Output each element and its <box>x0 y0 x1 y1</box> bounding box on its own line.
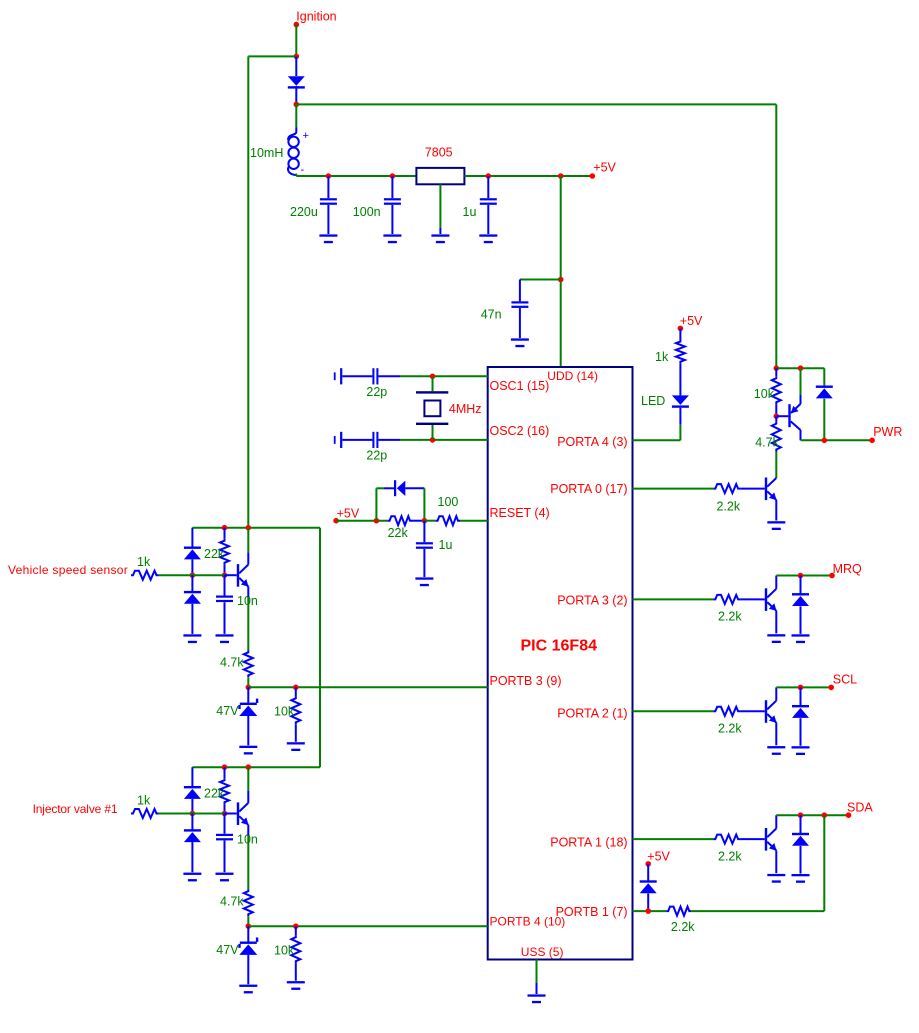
svg-text:LED: LED <box>641 394 665 408</box>
diode clamp-low (injector valve) <box>191 814 193 830</box>
wire PORTB1 pin <box>633 910 667 912</box>
resistor 10k (vehicle speed sensor) <box>295 687 297 696</box>
junction 12V/emitter <box>798 365 804 371</box>
LED D2 <box>679 364 681 396</box>
junction 1u <box>486 173 492 179</box>
svg-text:+5V: +5V <box>593 161 616 175</box>
junction rail/collector <box>246 525 252 531</box>
svg-text:10k: 10k <box>274 943 295 957</box>
diode clamp-low (vehicle speed sensor) <box>191 575 193 591</box>
resistor 2.2k (PORTA 0) <box>633 488 714 490</box>
svg-text:1k: 1k <box>655 350 669 364</box>
svg-text:Vehicle speed sensor: Vehicle speed sensor <box>8 563 128 577</box>
wire to inductor <box>295 104 297 127</box>
ground emitter (MRQ) <box>767 634 785 636</box>
node SCL terminal <box>828 685 834 691</box>
wire LED to PORTA 4 <box>679 425 681 441</box>
junction rail/22k <box>222 525 228 531</box>
junction input/base <box>222 572 228 578</box>
wire 22p to chip <box>400 375 488 377</box>
junction input/diodes <box>190 572 196 578</box>
junction diode/PORTB1 <box>645 908 651 914</box>
transistor NPN (MRQ) <box>740 598 765 600</box>
resistor 10k (PWR) <box>775 368 777 376</box>
node +5V (reset) <box>333 518 339 524</box>
svg-text:10k: 10k <box>274 705 295 719</box>
svg-text:PORTA 2 (1): PORTA 2 (1) <box>557 707 627 721</box>
transistor NPN (vehicle speed sensor) <box>225 574 237 576</box>
svg-text:PORTB 1 (7): PORTB 1 (7) <box>556 905 628 919</box>
zener 47V (vehicle speed sensor) <box>247 687 249 703</box>
svg-text:1u: 1u <box>439 538 453 552</box>
svg-text:2.2k: 2.2k <box>718 722 742 736</box>
resistor 4.7k (vehicle speed sensor) <box>244 650 253 677</box>
svg-text:220u: 220u <box>290 205 318 219</box>
svg-text:PIC 16F84: PIC 16F84 <box>521 638 598 655</box>
capacitor 10n (injector valve) <box>224 814 226 834</box>
transistor NPN (injector valve) <box>225 813 237 815</box>
junction input/diodes <box>190 811 196 817</box>
junction 220u <box>326 173 332 179</box>
capacitor C2 100n <box>391 176 393 198</box>
node SDA terminal <box>846 812 852 818</box>
capacitor 22p <box>334 436 336 444</box>
transistor NPN (PWR driver) <box>740 488 765 490</box>
svg-text:47V: 47V <box>216 943 239 957</box>
junction rail/collector <box>246 764 252 770</box>
junction diode tap (MRQ) <box>798 573 804 579</box>
ground diode (MRQ) <box>792 634 810 636</box>
junction 12V/10k <box>774 365 780 371</box>
svg-text:2.2k: 2.2k <box>717 500 741 514</box>
diode clamp-high (vehicle speed sensor) <box>191 528 193 547</box>
svg-text:+5V: +5V <box>337 507 360 521</box>
diode clamp (SCL) <box>800 687 802 705</box>
svg-text:47n: 47n <box>481 308 502 322</box>
svg-text:22p: 22p <box>366 449 387 463</box>
crystal Q1 4MHz <box>432 376 434 391</box>
resistor 4.7k (injector valve) <box>244 889 253 916</box>
wire left vertical rail <box>247 56 249 527</box>
svg-text:7805: 7805 <box>425 146 453 160</box>
svg-text:SDA: SDA <box>847 801 873 815</box>
wire 47n tap <box>520 279 561 281</box>
resistor 22k pull-up (vehicle speed sensor) <box>224 528 226 539</box>
wire collector (SCL) <box>776 686 831 688</box>
svg-text:SCL: SCL <box>833 672 857 686</box>
svg-text:Injector valve #1: Injector valve #1 <box>33 802 118 816</box>
wire input net <box>159 574 225 576</box>
wire 22p to chip <box>400 439 488 441</box>
wire 7805 output rail <box>464 175 592 177</box>
wire 2.2k to SDA riser <box>691 910 824 912</box>
wire ignition stub <box>295 25 297 57</box>
resistor 1k input (injector valve) <box>131 809 159 818</box>
junction flyback/output <box>822 438 828 444</box>
svg-text:22k: 22k <box>388 526 409 540</box>
junction ignition/left-rail <box>294 54 300 60</box>
wire SDA to PORTB1 riser <box>823 815 825 911</box>
svg-text:22k: 22k <box>204 547 225 561</box>
ground diode (SDA) <box>792 874 810 876</box>
junction 12V node <box>294 102 300 108</box>
capacitor 10n (vehicle speed sensor) <box>224 575 226 595</box>
wire collector (SDA) <box>776 814 848 816</box>
wire 12V to flyback <box>776 367 824 369</box>
svg-text:47V: 47V <box>216 704 239 718</box>
resistor 1k (LED) <box>679 328 681 339</box>
svg-text:PORTB 3 (9): PORTB 3 (9) <box>490 674 562 688</box>
svg-text:22p: 22p <box>366 385 387 399</box>
wire inductor to rail <box>295 174 297 177</box>
ground PWR driver emitter <box>767 521 785 523</box>
ground USS pin <box>536 960 538 984</box>
ground emitter (SCL) <box>767 746 785 748</box>
wire emitter to 4.7k <box>247 836 249 890</box>
regulator U2 7805 <box>416 168 464 184</box>
diode reset (discharge) <box>394 480 396 496</box>
junction OSC2 <box>430 437 436 443</box>
junction diode tap (SDA) <box>798 812 804 818</box>
svg-text:4.7k: 4.7k <box>755 436 779 450</box>
junction 100n <box>390 173 396 179</box>
wire to left rail <box>248 55 296 57</box>
svg-text:PORTA 1 (18): PORTA 1 (18) <box>550 836 627 850</box>
wire +5V to 22k <box>336 520 388 522</box>
capacitor C5 1u (reset) <box>423 521 425 543</box>
wire to PORTB 4 pin <box>248 925 487 927</box>
resistor 100 (reset) <box>424 520 435 522</box>
ground 7805 <box>439 184 441 228</box>
resistor 2.2k (MRQ) <box>633 598 714 600</box>
svg-text:OSC1 (15): OSC1 (15) <box>490 379 550 393</box>
svg-text:MRQ: MRQ <box>833 562 862 576</box>
svg-text:USS (5): USS (5) <box>521 945 564 959</box>
wire PWR output <box>801 439 873 441</box>
svg-text:4.7k: 4.7k <box>220 656 244 670</box>
junction 4.7k/zener <box>246 923 252 929</box>
junction zener/10k <box>293 685 299 691</box>
svg-text:4MHz: 4MHz <box>449 402 482 416</box>
svg-text:PORTA 4 (3): PORTA 4 (3) <box>557 435 627 449</box>
diode clamp-high (injector valve) <box>191 767 193 786</box>
junction input/base <box>222 811 228 817</box>
zener 47V (injector valve) <box>247 926 249 942</box>
junction base node PWR <box>774 413 780 419</box>
resistor 2.2k (SDA) <box>633 838 714 840</box>
junction reset node <box>422 518 428 524</box>
inductor L1 10mH <box>288 128 296 141</box>
wire emitter to 4.7k <box>247 597 249 650</box>
svg-text:+5V: +5V <box>647 850 670 864</box>
svg-text:PORTA 3 (2): PORTA 3 (2) <box>557 594 627 608</box>
svg-text:1k: 1k <box>137 794 151 808</box>
node MRQ terminal <box>829 573 835 579</box>
capacitor C4 47n <box>519 280 521 302</box>
svg-text:10mH: 10mH <box>250 146 283 160</box>
node +5V (PORTB 1) <box>645 861 651 867</box>
resistor 2.2k (PORTB 1) <box>666 907 691 916</box>
wire to PORTB 3 pin <box>248 686 487 688</box>
svg-text:100n: 100n <box>353 205 381 219</box>
IC U1 PIC 16F84 body <box>488 367 633 960</box>
svg-text:10k: 10k <box>754 387 775 401</box>
svg-text:PORTB 4 (10): PORTB 4 (10) <box>490 915 566 929</box>
svg-text:OSC2 (16): OSC2 (16) <box>490 424 550 438</box>
wire 4.7k to NPN collector <box>775 452 777 479</box>
resistor 22k pull-up (injector valve) <box>224 767 226 778</box>
wire reset diode loop <box>375 488 377 520</box>
wire input net <box>159 813 225 815</box>
wire 22k to node <box>412 520 424 522</box>
resistor 4.7k (PWR) <box>775 416 777 421</box>
resistor 10k (injector valve) <box>295 926 297 935</box>
junction reset loop left <box>374 518 380 524</box>
diode D1 reverse-protection <box>295 56 297 76</box>
junction 4.7k/zener <box>246 685 252 691</box>
wire injector valve top rail <box>192 766 320 768</box>
transistor NPN (SDA) <box>740 838 765 840</box>
capacitor 22p <box>334 372 336 380</box>
svg-text:Ignition: Ignition <box>296 10 336 24</box>
resistor 1k input (vehicle speed sensor) <box>131 571 159 580</box>
wire right 12V rail down <box>775 104 777 368</box>
junction diode tap (SCL) <box>798 685 804 691</box>
svg-text:4.7k: 4.7k <box>220 894 244 908</box>
junction 47n tap <box>558 277 564 283</box>
svg-text:+5V: +5V <box>680 314 703 328</box>
svg-text:PWR: PWR <box>873 425 902 439</box>
svg-text:2.2k: 2.2k <box>671 920 695 934</box>
svg-text:2.2k: 2.2k <box>718 610 742 624</box>
wire UDD supply feed <box>560 176 562 367</box>
svg-text:1k: 1k <box>137 555 151 569</box>
transistor NPN (SCL) <box>740 710 765 712</box>
wire top 12V rail <box>296 103 776 105</box>
transistor PNP (PWR) <box>776 415 788 417</box>
node +5V (LED) <box>678 326 684 332</box>
ground emitter (SDA) <box>767 874 785 876</box>
node +5V terminal (supply) <box>590 173 596 179</box>
svg-text:100: 100 <box>438 495 459 509</box>
junction SDA/PORTB1 riser <box>822 812 828 818</box>
ground diode (SCL) <box>792 746 810 748</box>
node Ignition terminal <box>294 22 300 28</box>
svg-text:1u: 1u <box>463 205 477 219</box>
capacitor C1 220u <box>327 176 329 198</box>
svg-text:2.2k: 2.2k <box>718 849 742 863</box>
wire collector (MRQ) <box>776 575 832 577</box>
diode clamp (PORTB 1) <box>647 864 649 881</box>
junction UDD feed <box>558 173 564 179</box>
svg-text:RESET (4): RESET (4) <box>490 506 550 520</box>
junction OSC1 <box>430 374 436 380</box>
junction rail/22k <box>222 764 228 770</box>
resistor 22k (reset) <box>388 516 412 525</box>
junction zener/10k <box>293 923 299 929</box>
wire vehicle speed sensor top rail <box>192 527 320 529</box>
svg-text:PORTA 0 (17): PORTA 0 (17) <box>550 482 627 496</box>
diode clamp (MRQ) <box>800 576 802 594</box>
wire 100 to RESET pin <box>460 520 488 522</box>
node PWR terminal <box>869 438 875 444</box>
svg-text:+: + <box>303 130 309 142</box>
wire middle rail down <box>319 528 321 768</box>
svg-text:UDD (14): UDD (14) <box>547 369 598 383</box>
diode clamp (SDA) <box>800 815 802 833</box>
diode flyback (PWR) <box>823 368 825 386</box>
capacitor C3 1u <box>487 176 489 198</box>
svg-text:22k: 22k <box>204 787 225 801</box>
resistor 2.2k (SCL) <box>633 710 714 712</box>
svg-text:-: - <box>301 164 305 176</box>
